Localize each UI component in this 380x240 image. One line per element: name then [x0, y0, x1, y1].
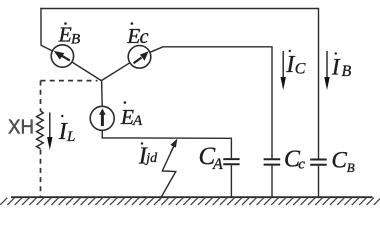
label CA	[199, 143, 224, 173]
label XH (load)	[8, 117, 34, 139]
label EA	[120, 101, 143, 129]
svg-text:c: c	[140, 26, 149, 48]
current arrow IC	[281, 51, 286, 90]
lightning discharge arrow Ijd	[159, 139, 177, 201]
label EB	[58, 22, 81, 47]
label CB	[332, 148, 355, 175]
capacitor CB	[310, 160, 327, 165]
wire: CC branch vertical upper	[271, 47, 273, 159]
svg-text:C: C	[332, 148, 348, 173]
dashed wire: horizontal from load branch to node	[41, 80, 98, 82]
label CC	[284, 146, 305, 172]
capacitor CA	[223, 159, 239, 164]
ground hatching	[0, 198, 380, 205]
label Ijd	[138, 142, 158, 169]
svg-text:B: B	[71, 31, 80, 47]
wire: CB branch vertical lower to ground	[318, 166, 320, 198]
load impedance XH zigzag	[37, 111, 44, 149]
source EA internal arrow (points up, bold)	[99, 108, 106, 126]
capacitor CC	[264, 159, 281, 164]
source EB internal arrow (points up-left)	[54, 51, 70, 61]
wire: CA branch vertical lower to ground	[230, 165, 232, 197]
svg-text:C: C	[295, 60, 306, 77]
wire: horizontal from EC to CC branch	[163, 46, 273, 48]
current arrow IB	[324, 51, 329, 90]
source EC circle	[128, 46, 151, 69]
wire: bottom horizontal from EA to CA branch	[102, 137, 232, 139]
ground rail line	[11, 196, 373, 198]
source EA circle	[90, 106, 114, 130]
wire: top horizontal bus	[40, 8, 319, 10]
svg-text:I: I	[331, 55, 341, 80]
svg-text:A: A	[132, 113, 143, 129]
wire: EC up-right diagonal	[150, 47, 163, 53]
svg-text:E: E	[58, 23, 72, 47]
dashed wire: load branch vertical lower to ground	[40, 150, 42, 198]
svg-text:c: c	[298, 156, 305, 172]
wire: node to EC	[101, 63, 129, 81]
wire: CA branch vertical upper	[230, 138, 232, 158]
label EC	[126, 22, 148, 48]
svg-text:E: E	[126, 24, 140, 48]
svg-text:jd: jd	[144, 151, 158, 166]
current arrow IL	[47, 113, 52, 151]
source EB circle	[51, 45, 73, 67]
label IL	[58, 115, 76, 145]
wire: left vertical drop from top bus	[40, 8, 42, 46]
wire: EB to node	[72, 62, 102, 81]
svg-text:XH: XH	[8, 117, 34, 139]
svg-text:A: A	[212, 156, 223, 173]
label IC	[285, 50, 305, 78]
svg-text:B: B	[347, 160, 355, 175]
dashed wire: load branch vertical upper	[40, 81, 42, 111]
wire: CC branch vertical lower to ground	[271, 166, 273, 198]
wire: node down to EA	[101, 80, 104, 106]
svg-text:B: B	[342, 63, 352, 80]
wire: diagonal into source EB	[41, 45, 53, 51]
wire: EA down to bottom horizontal	[101, 130, 103, 138]
wire: CB branch vertical upper (from top bus)	[318, 9, 320, 159]
svg-text:L: L	[66, 129, 75, 145]
svg-text:E: E	[120, 105, 134, 129]
source EC internal arrow (points up-right)	[134, 51, 149, 63]
label IB	[331, 52, 352, 80]
